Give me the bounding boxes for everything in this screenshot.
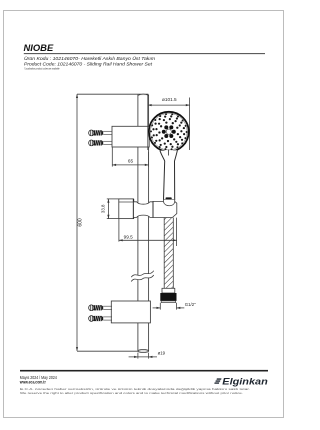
head center cap [166, 129, 171, 134]
dimension 600 vertical line [77, 94, 148, 351]
handle button [166, 197, 172, 199]
handle [160, 150, 178, 199]
connector bottom lip [161, 301, 175, 303]
top wall bracket [112, 126, 149, 147]
svg-text:600: 600 [78, 218, 84, 227]
svg-text:ø19: ø19 [158, 350, 166, 355]
svg-text:*Localization product codes ar: *Localization product codes are availabl… [24, 66, 60, 70]
svg-text:99.5: 99.5 [124, 234, 134, 239]
svg-text:G1/2": G1/2" [185, 302, 196, 307]
rail bottom cap [138, 350, 149, 353]
title underline [24, 53, 265, 55]
svg-text:ø101.5: ø101.5 [162, 97, 177, 102]
dimension 33.8 [107, 199, 119, 219]
slider sleeve around rail [134, 202, 154, 218]
dimension phi101.5 [148, 94, 190, 150]
handle bottom arc [164, 200, 175, 206]
shower head inner rim [151, 113, 188, 150]
nozzle dots [150, 113, 188, 150]
screw S1 [89, 130, 112, 136]
svg-text:We reserve the right to alter: We reserve the right to alter product sp… [20, 391, 243, 395]
hose connector nut (black) [160, 293, 176, 301]
slider knob [119, 199, 134, 219]
screw S4 [89, 316, 112, 322]
dimension phi19 [129, 353, 157, 359]
svg-text:www.eca.com.tr: www.eca.com.tr [19, 380, 46, 385]
svg-text:33.8: 33.8 [100, 204, 105, 213]
handle holder [153, 201, 177, 217]
rail top cap [138, 94, 149, 95]
svg-text:Elginkan: Elginkan [222, 376, 268, 386]
hose column [164, 218, 173, 289]
svg-text:NIOBE: NIOBE [24, 42, 54, 53]
screw S2 [89, 140, 112, 146]
hose connector collar [162, 288, 175, 293]
screw S3 [89, 305, 112, 311]
svg-text:Ürün Kodu : 102146070- Hareket: Ürün Kodu : 102146070- Hareketli Askılı … [24, 55, 155, 62]
lower wall bracket [111, 301, 150, 323]
dimension 65 [112, 147, 148, 166]
footer rule [20, 370, 268, 372]
shower head outer circle [149, 112, 189, 152]
Elginkan logo emblem [214, 378, 221, 383]
svg-text:65: 65 [128, 158, 134, 163]
dimension 600 arrows [76, 94, 78, 98]
rail [138, 95, 149, 351]
dimension 99.5 [119, 218, 177, 246]
dimension G1/2 [153, 303, 185, 310]
head center mark [168, 150, 170, 156]
hose hatch [164, 218, 173, 289]
rail break symbol [131, 271, 154, 282]
